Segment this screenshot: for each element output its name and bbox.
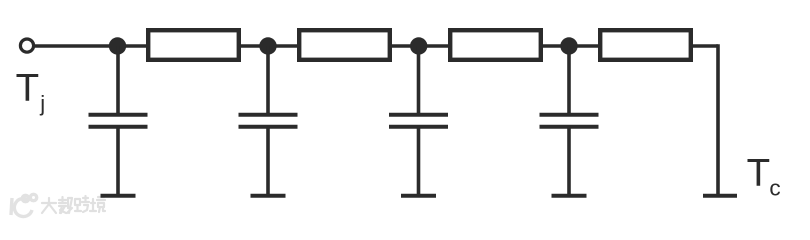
label Tj	[16, 67, 46, 116]
svg-text:j: j	[39, 91, 45, 116]
wire: terminal to R1	[35, 44, 146, 48]
char 数	[59, 197, 66, 213]
node 4 junction dot	[560, 37, 577, 54]
node 2 junction dot	[259, 37, 276, 54]
wire: R4 to output corner	[693, 44, 718, 48]
resistor R4	[600, 30, 691, 60]
svg-text:T: T	[16, 67, 40, 110]
wire: R3 to R4	[543, 44, 598, 48]
capacitor C2	[239, 46, 298, 196]
char 境	[90, 199, 96, 211]
svg-text:T: T	[747, 152, 771, 195]
resistor R2	[299, 30, 390, 60]
char 跨	[75, 199, 81, 211]
char 大	[42, 202, 56, 204]
capacitor C3	[389, 46, 448, 196]
watermark logo	[11, 194, 37, 216]
capacitor C4	[540, 46, 599, 196]
resistor R3	[450, 30, 541, 60]
node 1 junction dot	[109, 37, 126, 54]
label Tc	[747, 152, 781, 201]
wire: right vertical drop to Tc	[716, 44, 720, 196]
watermark text (stylised 大数跨境)	[42, 196, 105, 213]
resistor R1	[148, 30, 239, 60]
wire: R2 to R3	[392, 44, 448, 48]
ground bar at Tc (output terminal bar)	[703, 194, 737, 198]
wire: R1 to R2	[241, 44, 297, 48]
terminal Tj (input node open circle)	[20, 39, 33, 52]
node 3 junction dot	[410, 37, 427, 54]
svg-text:c: c	[769, 176, 780, 201]
capacitor C1	[89, 46, 148, 196]
